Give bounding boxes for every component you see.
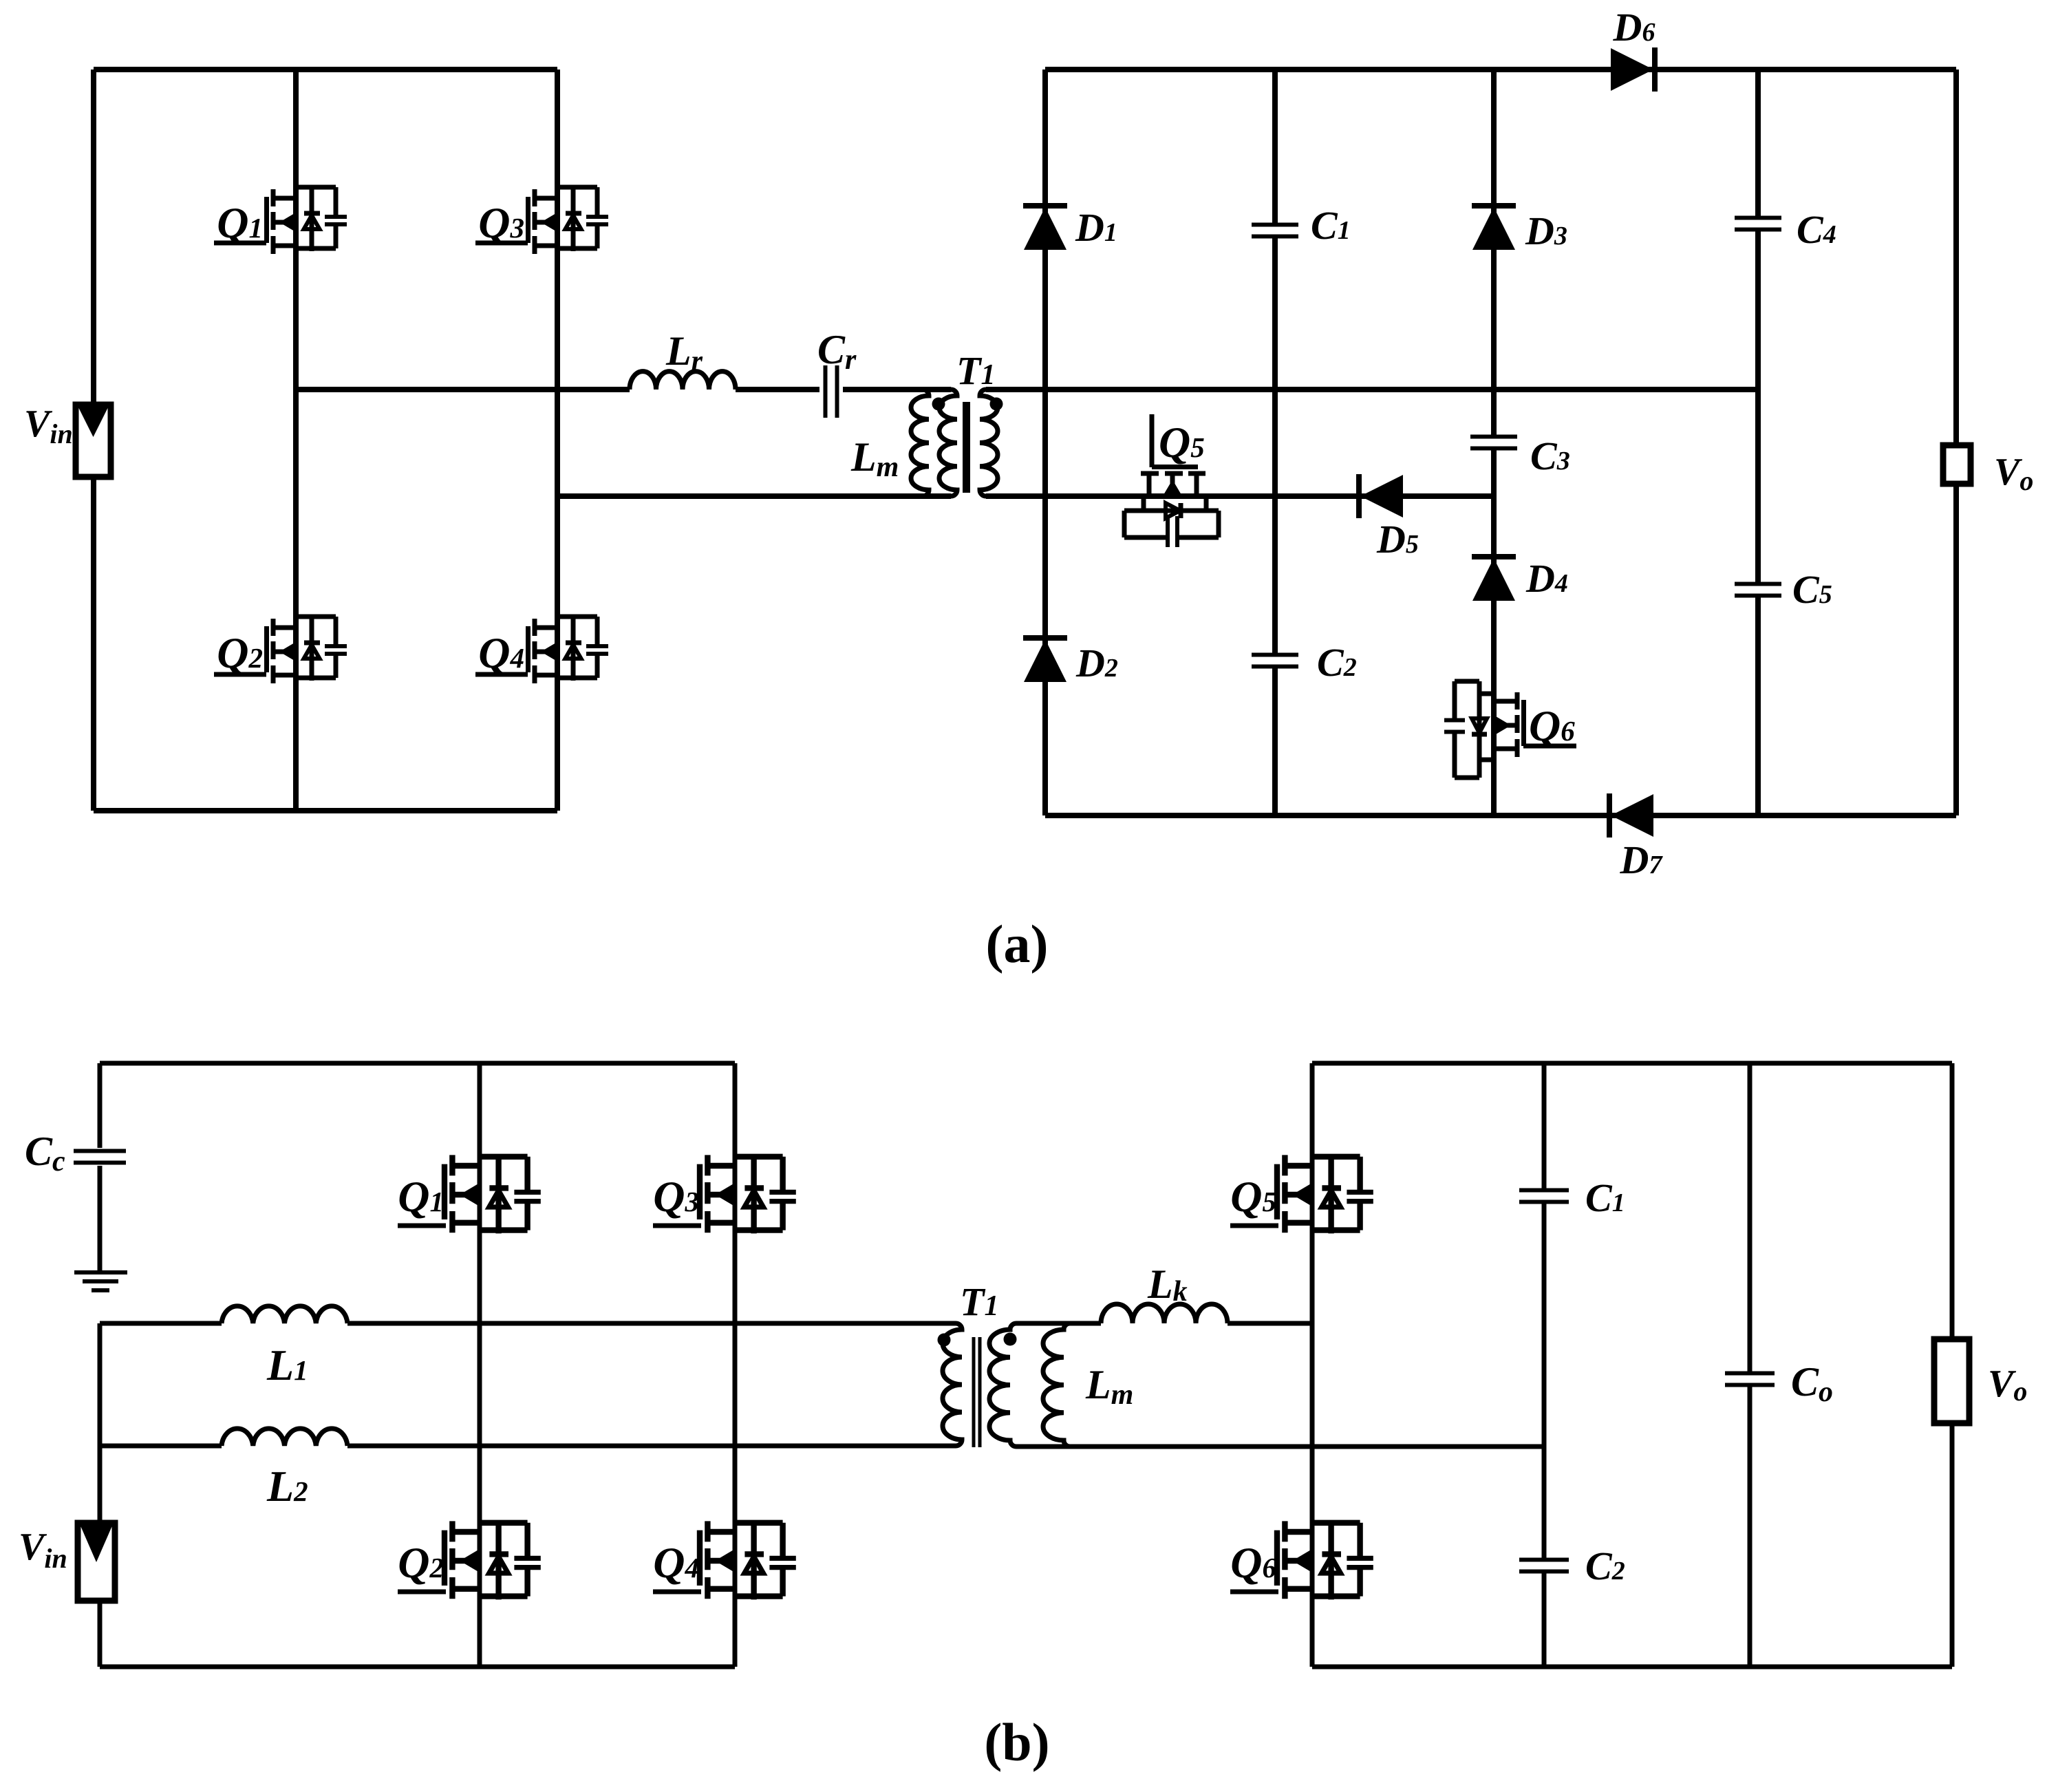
capacitor C2 (circuit b) — [1519, 1560, 1569, 1572]
label Q3 (circuit b) — [653, 1172, 699, 1221]
transistor Q2 — [214, 617, 347, 683]
transformer T1 (b) magnetizing winding Lm column — [1043, 1323, 1070, 1447]
transistor Q3 — [475, 187, 608, 254]
label T1 (b) — [960, 1279, 998, 1324]
label Lr — [665, 328, 703, 377]
capacitor Co — [1725, 1374, 1775, 1385]
label D2 — [1075, 641, 1118, 685]
wire: circuit-b L1 wire left — [100, 1321, 222, 1326]
wire: circuit-a Cr to transformer primary top — [843, 387, 951, 392]
label Co — [1791, 1359, 1833, 1408]
label Lk — [1147, 1261, 1188, 1308]
load Vo (circuit a) — [1943, 445, 1971, 484]
transformer T1 (b) secondary dot — [1004, 1333, 1017, 1346]
label Q6 (circuit b) — [1230, 1538, 1276, 1587]
capacitor Cc — [74, 1151, 126, 1163]
wire: circuit-b Cc leg lower — [98, 1166, 103, 1272]
inductor Lr — [630, 372, 736, 390]
label Q5 (circuit a) — [1159, 418, 1205, 467]
wire: circuit-b secondary bottom rail — [1312, 1665, 1952, 1670]
label Lm (a) — [850, 434, 899, 483]
wire: circuit-b L1 wire to transformer — [347, 1321, 956, 1326]
transformer T1 (b) primary dot — [938, 1334, 951, 1347]
transistor Q4 (circuit b) — [653, 1521, 796, 1599]
wire: circuit-a output right rail lower — [1953, 484, 1959, 815]
label Q5 (circuit b) — [1230, 1172, 1276, 1221]
wire: circuit-b Cc leg upper — [98, 1063, 103, 1148]
label Cr — [817, 327, 857, 376]
transistor Q3 (circuit b) — [653, 1155, 796, 1233]
label C4 — [1797, 207, 1836, 252]
diode D3 — [1472, 206, 1516, 250]
caption (a) — [986, 914, 1049, 974]
wire: circuit-a bridge midpoint A to Lr — [296, 387, 630, 392]
diode D1 — [1023, 206, 1067, 250]
diode D4 — [1472, 557, 1516, 601]
wire: circuit-a rectifier leg3 (D3/C3/D4/Q6) — [1491, 70, 1497, 815]
transistor Q1 (circuit b) — [398, 1155, 541, 1233]
wire: circuit-b left source vertical lower — [98, 1599, 103, 1667]
wire: circuit-b right rail lower — [1950, 1420, 1955, 1667]
wire: circuit-a output right rail upper — [1953, 70, 1959, 445]
load Vo (circuit b) — [1934, 1339, 1969, 1423]
wire: circuit-a Lr to Cr — [736, 387, 819, 392]
label D3 — [1525, 209, 1567, 253]
label L1 — [266, 1341, 308, 1389]
wire: circuit-b bottom rail left — [100, 1665, 735, 1670]
wire: circuit-a rectifier leg1 (D1/D2) — [1042, 70, 1048, 815]
wire: circuit-b secondary top rail — [1312, 1061, 1952, 1066]
capacitor C1 — [1252, 225, 1298, 237]
diode D6 — [1611, 47, 1655, 92]
svg-text:(a): (a) — [986, 914, 1049, 974]
transformer T1 (a) secondary winding column — [980, 390, 998, 496]
transformer T1 (a) magnetizing winding Lm column — [911, 390, 929, 496]
capacitor C4 — [1735, 218, 1781, 230]
label Q2 (circuit b) — [398, 1538, 444, 1587]
wire: circuit-a left rail upper segment — [91, 70, 96, 407]
label Q4 — [478, 628, 524, 677]
label D6 — [1613, 5, 1655, 50]
transformer T1 (a) secondary dot — [990, 398, 1003, 411]
wire: circuit-b left source vertical — [98, 1323, 103, 1525]
label C2 — [1317, 640, 1357, 685]
wire: circuit-a secondary bottom wire — [986, 493, 1494, 499]
label Cc — [25, 1129, 65, 1177]
label L2 — [266, 1462, 308, 1511]
transformer T1 (b) primary winding column — [943, 1323, 962, 1446]
transistor Q5 (circuit a) — [1124, 414, 1219, 547]
transformer T1 (b) core line 1 — [972, 1337, 976, 1447]
label Vin (circuit b) — [19, 1526, 67, 1574]
label C1 — [1311, 203, 1351, 248]
inductor Lk — [1101, 1304, 1228, 1323]
voltage source Vin (circuit b) — [78, 1523, 115, 1601]
label Q2 — [217, 628, 263, 677]
transformer T1 (a) primary dot — [932, 398, 945, 411]
wire: circuit-b Lk to half-bridge leg — [1228, 1321, 1312, 1326]
label C2 (circuit b) — [1585, 1544, 1625, 1588]
label Lm (b) — [1085, 1362, 1133, 1411]
wire: circuit-b bridge leg A vertical (Q1/Q2) — [478, 1063, 482, 1667]
transistor Q1 — [214, 187, 347, 254]
inductor L1 — [222, 1306, 347, 1323]
wire: circuit-b C1/C2 leg — [1542, 1063, 1547, 1667]
wire: circuit-b half-bridge leg vertical (Q5/Q6) — [1310, 1063, 1315, 1667]
label D4 — [1525, 556, 1568, 601]
wire: circuit-b L2 wire to transformer — [347, 1444, 956, 1449]
label Vin (circuit a) — [24, 403, 73, 449]
svg-text:(b): (b) — [984, 1712, 1049, 1772]
label Vo (circuit b) — [1988, 1363, 2027, 1407]
wire: circuit-a rectifier leg4 (C4/C5) — [1755, 70, 1761, 815]
transistor Q6 (circuit b) — [1230, 1521, 1373, 1599]
wire: circuit-b right rail upper — [1950, 1063, 1955, 1342]
voltage source Vin (circuit a) — [76, 405, 111, 477]
wire: circuit-b bridge leg B vertical (Q3/Q4) — [733, 1063, 738, 1667]
label Q6 (circuit a) — [1529, 701, 1575, 750]
label Q1 (circuit b) — [398, 1172, 444, 1221]
label C5 — [1792, 567, 1832, 612]
inductor L2 — [222, 1429, 347, 1446]
label D1 — [1075, 205, 1117, 250]
wire: circuit-a secondary top wire — [986, 387, 1758, 392]
label Q1 — [217, 198, 263, 247]
diode D5 — [1359, 474, 1403, 518]
wire: circuit-a rectifier leg2 (C1/C2) — [1272, 70, 1278, 815]
capacitor C5 — [1735, 584, 1781, 596]
wire: circuit-a bridge leg A vertical (Q1/Q2) — [293, 70, 299, 811]
transformer T1 (a) primary winding column — [939, 390, 957, 496]
label Q4 (circuit b) — [653, 1538, 699, 1587]
transistor Q5 (circuit b) — [1230, 1155, 1373, 1233]
wire: circuit-a left rail lower segment — [91, 474, 96, 811]
wire: circuit-a rectifier bottom rail — [1045, 813, 1956, 818]
wire: circuit-a input bridge bottom rail — [94, 808, 557, 813]
wire: circuit-b L2 wire left — [100, 1444, 222, 1449]
wire: circuit-b secondary top wire — [1016, 1321, 1101, 1326]
ground symbol — [74, 1272, 127, 1290]
label D5 — [1376, 517, 1419, 562]
wire: circuit-a bridge leg B vertical (Q3/Q4) — [555, 70, 560, 811]
wire: circuit-a bridge midpoint B to transformer primary bottom — [557, 493, 951, 499]
wire: circuit-b secondary bottom wire — [1016, 1444, 1544, 1449]
label C1 (circuit b) — [1585, 1175, 1625, 1220]
transformer T1 (b) secondary winding column — [989, 1323, 1016, 1447]
wire: circuit-b Co leg — [1748, 1063, 1753, 1667]
label T1 (a) — [956, 348, 995, 393]
label C3 — [1530, 434, 1570, 478]
diode D2 — [1023, 638, 1067, 682]
transistor Q2 (circuit b) — [398, 1521, 541, 1599]
diode D7 — [1609, 793, 1653, 838]
wire: circuit-b bridge top rail — [100, 1061, 735, 1066]
capacitor C3 — [1470, 437, 1517, 449]
label D7 — [1620, 838, 1664, 882]
label Vo (circuit a) — [1994, 451, 2033, 496]
label Q3 — [478, 198, 524, 247]
transformer T1 (b) core line 2 — [978, 1337, 982, 1447]
transistor Q4 — [475, 617, 608, 683]
caption (b) — [984, 1712, 1049, 1772]
transistor Q6 (circuit a) — [1444, 681, 1576, 778]
capacitor Cr — [826, 365, 837, 418]
wire: circuit-a rectifier top rail — [1045, 67, 1956, 72]
capacitor C2 — [1252, 655, 1298, 667]
wire: circuit-a input bridge top rail — [94, 67, 557, 72]
transformer T1 (a) core — [963, 402, 970, 493]
capacitor C1 (circuit b) — [1519, 1191, 1569, 1202]
